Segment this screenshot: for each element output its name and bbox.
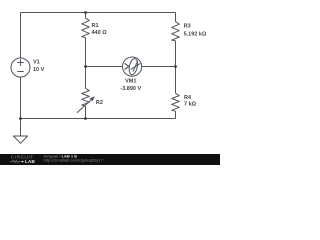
wire top rail [21, 12, 176, 14]
svg-text:R3: R3 [184, 24, 191, 30]
wire R4 bottom lead [175, 111, 177, 118]
wire left rail lower (V1 to bottom) [20, 77, 22, 119]
wire ground stub [20, 119, 22, 137]
resistor R2 (variable) [82, 88, 90, 106]
svg-text:-3.890 V: -3.890 V [120, 86, 141, 92]
wire R1 top lead [85, 13, 87, 19]
R2 arrowhead [90, 96, 95, 101]
svg-text:R4: R4 [184, 95, 192, 101]
watermark bar [0, 154, 220, 165]
node junction top R1 [84, 11, 87, 14]
svg-text:7 kΩ: 7 kΩ [184, 101, 197, 107]
svg-text:440 Ω: 440 Ω [92, 30, 108, 36]
svg-text:R1: R1 [92, 23, 99, 29]
node junction left bottom [19, 117, 22, 120]
svg-text:R2: R2 [96, 100, 103, 106]
VM1 polarity mark [125, 63, 129, 69]
VM1 needle line 1 [131, 63, 141, 69]
wire R2 bottom lead [85, 106, 87, 119]
watermark logo zigzag [10, 160, 21, 162]
V1 plus sign [17, 59, 23, 65]
wire R3 bottom lead [175, 41, 177, 67]
V1 minus sign [17, 71, 23, 73]
svg-text:LAB: LAB [25, 159, 36, 164]
resistor R1 [82, 18, 90, 37]
resistor R3 [172, 22, 180, 41]
svg-text:http://circuitlab.com/c/ju6oq5: http://circuitlab.com/c/ju6oq52y17 [44, 157, 104, 162]
wire right rail top (to R3) [175, 13, 177, 22]
VM1 gauge ellipse [128, 58, 139, 76]
wire middle left (junction to voltmeter) [86, 66, 123, 68]
node junction right mid [174, 65, 177, 68]
wire R1 bottom lead [85, 38, 87, 67]
wire left rail upper (top to V1) [20, 13, 22, 59]
wire R2 top lead [85, 67, 87, 89]
VM1 needle line 2 [133, 61, 138, 72]
ground [13, 136, 27, 143]
svg-text:5.192 kΩ: 5.192 kΩ [184, 31, 207, 37]
voltage source V1 [11, 58, 30, 77]
wire middle right (voltmeter to right rail) [141, 66, 175, 68]
resistor R4 [172, 93, 180, 111]
svg-text:10 V: 10 V [33, 67, 45, 73]
node junction bottom R2 [84, 117, 87, 120]
watermark logo arrow [22, 161, 25, 163]
wire R4 top lead [175, 67, 177, 94]
R2 wiper arrow [77, 99, 92, 113]
node junction mid R1/R2/VM [84, 65, 87, 68]
svg-text:VM1: VM1 [125, 79, 136, 85]
wire bottom rail [21, 118, 176, 120]
svg-text:V1: V1 [33, 59, 40, 65]
voltmeter VM1 body [123, 57, 142, 76]
